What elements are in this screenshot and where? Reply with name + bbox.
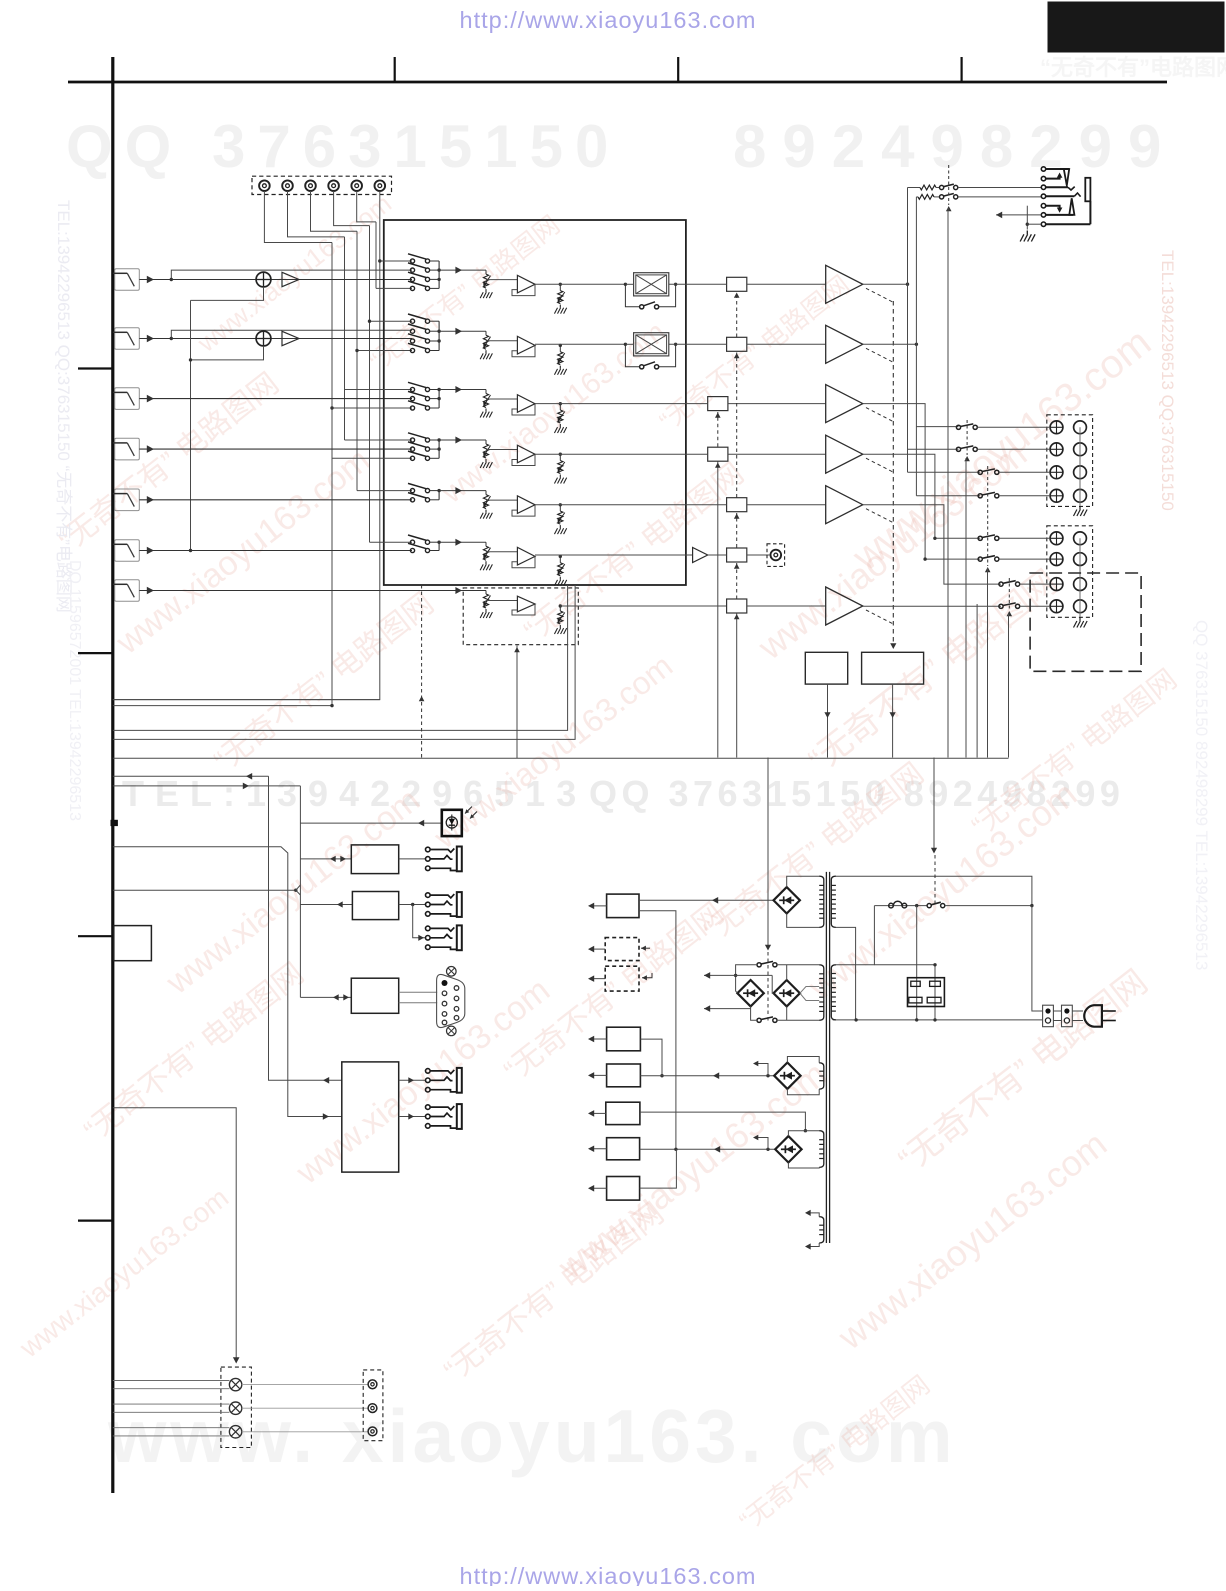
- speaker relay B2: [978, 557, 982, 561]
- wire row2 to V2: [686, 343, 727, 345]
- power switch linkage: [934, 855, 936, 903]
- wire W6 bottom arrow: [806, 1243, 819, 1247]
- ac connector pin block 2: [1062, 1005, 1073, 1026]
- sub buffer op-amp: [517, 596, 535, 612]
- wire V1 to power amp: [747, 283, 826, 285]
- junction bus mid: [437, 397, 440, 400]
- wire V6 to pre-out jack: [747, 554, 770, 556]
- remote block B: [352, 892, 398, 920]
- wire relay to terminal: [1020, 583, 1050, 585]
- ground under shunt pot: [554, 475, 566, 484]
- ground under shunt pot: [554, 424, 566, 433]
- selector switch S3: [410, 406, 414, 410]
- ground under pot: [480, 409, 492, 418]
- wire B to jack B2: [413, 905, 426, 938]
- input filter FL3: [115, 388, 140, 410]
- wire column feed: [332, 407, 412, 409]
- wire BR4 ac bottom: [787, 1089, 819, 1095]
- wire input3 main: [139, 398, 412, 400]
- junction bridge4 in: [766, 1074, 769, 1077]
- power amp PA5: [826, 486, 863, 524]
- bridge rectifier BR5: [775, 1136, 801, 1162]
- remote jack B2: [426, 926, 431, 931]
- shunt pot to ground: [559, 556, 561, 562]
- sub volume pot: [483, 594, 488, 608]
- op-amp buffer: [517, 445, 535, 463]
- speaker relay B1: [978, 536, 982, 540]
- hp contact1 wire: [1046, 168, 1070, 170]
- junction v3 row2: [355, 349, 358, 352]
- headphone jack contact 5: [1041, 204, 1045, 208]
- wire column feed: [376, 287, 412, 289]
- junction after attenuator: [674, 343, 677, 346]
- relay linkage B34: [1008, 578, 1010, 610]
- T2 switch linkage: [767, 952, 769, 1022]
- junction before attenuator: [624, 343, 627, 346]
- wire lamp L3 feed a: [113, 1427, 230, 1429]
- pre-out RCA jack: [771, 550, 782, 561]
- wire BR5 ac bottom: [788, 1163, 819, 1169]
- bus wire y699: [113, 699, 380, 701]
- wire fuse left leg: [836, 906, 875, 965]
- headphone ground: [1020, 231, 1035, 242]
- wire ctrl out: [113, 775, 269, 777]
- wire buffer out row6: [535, 554, 686, 556]
- regulator box R3 (dashed): [605, 966, 639, 991]
- wire B to jack B1: [399, 904, 426, 906]
- wire sub shunt: [559, 606, 561, 611]
- wire to rec selector: [535, 343, 560, 345]
- bus wire y730: [113, 585, 568, 730]
- input filter FL2: [115, 328, 140, 350]
- relay linkage A12: [966, 420, 968, 455]
- junction node: [559, 344, 562, 347]
- supply rail arrow: [590, 1148, 607, 1150]
- ground under sub pot: [480, 609, 492, 618]
- IR receiver box: [442, 810, 462, 836]
- arrow into line 5: [147, 496, 154, 504]
- frame tick left y1221: [78, 1219, 113, 1221]
- wire R6 to winding: [640, 1112, 806, 1131]
- junction bus out: [437, 541, 440, 544]
- wire buffer out row4: [535, 453, 686, 455]
- wire buffer out row1: [560, 283, 625, 285]
- RCA jack J3: [305, 180, 316, 191]
- wire attenuator out: [669, 283, 686, 285]
- wire column feed: [357, 490, 412, 492]
- ground under pot: [480, 459, 492, 468]
- rs232 block C: [351, 978, 398, 1013]
- trigger jack D2: [426, 1105, 431, 1110]
- selector switch S5: [410, 489, 414, 493]
- bridge5 gate arrow: [754, 1138, 768, 1150]
- bridge4 gate arrow: [754, 1064, 768, 1076]
- hp contact5 wire: [1046, 206, 1060, 211]
- headphone jack contact 7: [1041, 222, 1045, 226]
- wire lamp L1 feed b: [113, 1388, 230, 1390]
- wire input5 main: [139, 499, 412, 501]
- T2 primary switch bottom: [757, 1018, 761, 1022]
- regulator box R6: [606, 1102, 640, 1124]
- ground under pot: [480, 510, 492, 519]
- relay linkage diagonal PA2: [866, 348, 893, 362]
- wire lamp L2 feed a: [113, 1403, 230, 1405]
- junction bus mid: [437, 339, 440, 342]
- R3 sense arrow: [642, 973, 652, 978]
- lamp connector pin 3: [368, 1427, 377, 1436]
- wire pot wiper to buffer: [486, 398, 517, 400]
- mains neutral bus: [833, 1019, 1043, 1021]
- wire row5 to V5: [686, 504, 727, 506]
- terminal A4 positive: [1050, 489, 1063, 502]
- remote jack A: [426, 847, 431, 852]
- terminal A3 negative: [1074, 466, 1087, 479]
- wire switch to bus: [430, 457, 440, 459]
- wire column v1: [113, 243, 332, 706]
- remote jack B1: [426, 893, 431, 898]
- terminal B2 negative: [1074, 553, 1087, 566]
- selector switch S4: [410, 438, 414, 442]
- junction outlet tap a: [915, 904, 918, 907]
- supply rail arrow: [590, 978, 605, 980]
- protection block B: [862, 652, 924, 684]
- hp relay R: [940, 195, 944, 199]
- bus wire y739: [113, 585, 575, 739]
- selector switch S1: [410, 268, 414, 272]
- op-amp buffer: [517, 275, 535, 293]
- regulator box R1: [607, 894, 639, 918]
- op-amp buffer: [517, 336, 535, 354]
- winding W5: [819, 1131, 824, 1168]
- wire T1 sec bottom: [836, 927, 856, 1020]
- wire input7 into pot: [485, 591, 487, 595]
- selector bus row 2: [438, 321, 440, 350]
- arrow into line 7: [147, 587, 154, 595]
- arrow into line 6: [147, 547, 154, 555]
- junction amp3 corner: [923, 557, 926, 560]
- terminal A4 negative: [1074, 489, 1087, 502]
- wire lamp L2 out: [242, 1407, 368, 1409]
- wire switch to bus: [430, 407, 440, 409]
- wire switch to bus: [430, 260, 440, 262]
- relay linkage A34: [987, 466, 989, 566]
- wire A to jack: [399, 858, 426, 860]
- wire BR2 dc minus: [704, 1008, 751, 1010]
- bypass loop: [625, 344, 639, 367]
- wire column v2: [344, 237, 346, 440]
- volume chain dashed b: [736, 513, 738, 548]
- junction bus mid: [437, 447, 440, 450]
- selector switch S2: [410, 329, 414, 333]
- wire relay to terminal: [999, 471, 1050, 473]
- wire switch to plug: [945, 905, 1032, 907]
- sub linkage dashed: [421, 585, 423, 758]
- wire sub out: [560, 605, 726, 607]
- ground terminal A: [1074, 506, 1088, 516]
- input filter FL7: [115, 580, 140, 602]
- terminal B1 positive: [1050, 532, 1063, 545]
- speaker terminal block B (dashed): [1047, 526, 1093, 618]
- supply rail arrow: [590, 948, 605, 950]
- terminal B3 positive: [1050, 578, 1063, 591]
- ground under pot: [480, 561, 492, 570]
- volume drive solid V4: [717, 462, 719, 758]
- speaker relay A3: [978, 470, 982, 474]
- wire pot wiper to buffer: [486, 340, 517, 342]
- junction node: [559, 555, 562, 558]
- wire amp2 out: [863, 343, 917, 345]
- relay drive aux: [976, 604, 978, 758]
- terminal A2 positive: [1050, 443, 1063, 456]
- wire buffer out row5: [535, 504, 686, 506]
- terminal B4 negative: [1074, 600, 1087, 613]
- regulator box R8: [607, 1177, 640, 1201]
- aux chassis box: [114, 926, 152, 961]
- speaker relay A4: [978, 494, 982, 498]
- svg-text:892498299: 892498299: [733, 113, 1177, 180]
- wire column feed: [357, 350, 412, 352]
- supply rail arrow: [590, 1074, 607, 1076]
- wire hp gnd to contact7: [1027, 223, 1041, 225]
- wire switch to bus: [430, 278, 440, 280]
- wire switch to bus: [430, 269, 440, 271]
- svg-text:TEL:13942296513 QQ:376315150: TEL:13942296513 QQ:376315150: [1158, 250, 1177, 511]
- volume pot to ground: [485, 440, 487, 444]
- wire remote A: [300, 858, 351, 860]
- wire column v4: [369, 226, 371, 543]
- zone2 boundary box (dash-dot): [1030, 573, 1141, 671]
- winding W6: [819, 1217, 824, 1243]
- wire lamp L1 out: [242, 1384, 368, 1386]
- speaker relay B3: [999, 582, 1003, 586]
- border frame left vertical rule: [111, 57, 114, 1493]
- junction node: [559, 503, 562, 506]
- transformer T1 secondary: [831, 876, 836, 927]
- volume pot to ground: [485, 542, 487, 546]
- wire input2 upper branch: [171, 330, 412, 338]
- wire amp1 out: [863, 283, 908, 285]
- wire relay to terminal: [999, 558, 1050, 560]
- wire jack J3 to column bus: [311, 191, 358, 231]
- wire input1 upper branch: [171, 270, 412, 279]
- wire T2 sw top right: [777, 964, 819, 966]
- junction bridge5 in: [766, 1148, 769, 1151]
- headphone jack contact 4: [1041, 194, 1045, 198]
- wire BR2 dc plus: [704, 974, 772, 976]
- wire switch to bus: [430, 448, 440, 450]
- selector switch S2: [410, 319, 414, 323]
- wire pot wiper to buffer: [486, 279, 517, 281]
- bridge rectifier BR2: [737, 980, 763, 1006]
- junction bus out: [437, 268, 440, 271]
- transformer T2 primary: [819, 965, 824, 1021]
- wire V5 to power amp: [747, 504, 826, 506]
- antenna terminal mark: [111, 820, 117, 825]
- headphone jack contact 3: [1041, 185, 1045, 189]
- arrow into line 3: [147, 395, 154, 403]
- transformer T2 secondary: [831, 965, 836, 1020]
- wire hp line R: [916, 196, 918, 198]
- wire attenuator in: [625, 283, 633, 285]
- ctrl vertical v1: [269, 776, 342, 1080]
- sub channel block (dashed): [463, 588, 578, 645]
- relay linkage diagonal PA3: [866, 408, 893, 422]
- wire lamp L3 out: [242, 1431, 368, 1433]
- wire jack J2 to column bus: [288, 191, 345, 237]
- wire switch bus to volume pot: [439, 389, 486, 391]
- 12V trigger block D: [342, 1062, 399, 1172]
- frame tick top x962: [960, 57, 962, 82]
- wire switch bus to volume pot: [439, 541, 486, 543]
- wire T2 sw top left: [736, 965, 757, 993]
- selector bus row 3: [438, 390, 440, 409]
- junction R4R5: [660, 1074, 663, 1077]
- power amp PA7: [826, 587, 863, 625]
- wire input2 main: [139, 338, 412, 340]
- wire switch bus to volume pot: [439, 330, 486, 332]
- junction bus out: [437, 330, 440, 333]
- shunt pot to ground: [559, 454, 561, 460]
- junction v4 row2: [368, 320, 371, 323]
- feedback loop: [512, 345, 535, 356]
- IR light arrows: [465, 807, 472, 814]
- volume chain dashed c: [736, 353, 738, 498]
- lamp connector pin 1: [368, 1380, 377, 1389]
- wire switch to bus: [430, 389, 440, 391]
- hp relay L: [940, 185, 944, 189]
- wire column v3: [356, 231, 358, 490]
- row6 line buffer: [693, 548, 708, 563]
- junction mix bus input6: [189, 549, 192, 552]
- ac connector pin block 1: [1043, 1005, 1054, 1026]
- panel lamp L2: [229, 1402, 241, 1414]
- wire hp L to relay: [936, 187, 940, 189]
- wire hp line L: [908, 187, 921, 189]
- wire lamp L3 feed b: [113, 1435, 230, 1437]
- wire block B down: [892, 684, 894, 757]
- buffer after M2: [282, 331, 299, 345]
- frame tick left y653: [78, 652, 113, 654]
- wire keys line: [113, 847, 342, 1117]
- hp ground branch: [1026, 206, 1028, 230]
- ac outlet block: [908, 978, 945, 1007]
- junction dot v1 bus: [330, 704, 333, 707]
- wire BR1 ac top: [787, 876, 820, 887]
- wire amp4 route: [863, 454, 980, 538]
- wire R1 to bridge1: [639, 899, 775, 901]
- junction neutral a: [854, 1018, 857, 1021]
- hp relay linkage dashed: [948, 165, 950, 205]
- wire column feed: [345, 439, 413, 441]
- volume block V1: [727, 277, 747, 291]
- wire column v6: [113, 261, 380, 700]
- DB9 RS232 connector: [437, 974, 465, 1027]
- wire switch to bus: [430, 550, 440, 552]
- wire hp R to relay: [934, 196, 940, 198]
- hp tip spring: [1064, 169, 1069, 186]
- volume block V7: [727, 599, 747, 613]
- wire BR5 ac top: [788, 1131, 819, 1136]
- bypass loop: [625, 284, 639, 307]
- shunt pot to ground: [559, 345, 561, 351]
- winding W4: [819, 1063, 824, 1089]
- wire BR3 taps: [800, 987, 819, 994]
- selector switch S2: [410, 348, 414, 352]
- junction hp ground: [1026, 223, 1029, 226]
- relay drive A12: [965, 458, 967, 758]
- input filter FL1: [115, 269, 140, 291]
- wire switch to bus: [430, 398, 440, 400]
- junction node: [559, 453, 562, 456]
- lamp panel (dashed box): [221, 1367, 252, 1447]
- wire display line: [113, 889, 296, 891]
- buffer after M1: [282, 272, 299, 286]
- bypass switch: [640, 365, 644, 369]
- ground under shunt pot: [554, 525, 566, 534]
- wire attenuator in: [625, 343, 633, 345]
- attenuator box A2: [634, 333, 669, 356]
- wire relay feed row4: [916, 495, 980, 497]
- trigger jack D1: [426, 1069, 431, 1074]
- shunt pot to ground: [559, 505, 561, 511]
- wire V3 to power amp: [728, 403, 826, 405]
- junction mix bus M2: [189, 358, 192, 361]
- wire switch to bus: [430, 350, 440, 352]
- wire pot wiper to buffer: [486, 551, 517, 553]
- terminal A1 positive: [1050, 421, 1063, 434]
- junction R7 vertical: [674, 1148, 677, 1151]
- wire buffer out row2: [560, 343, 625, 345]
- terminal A1 negative: [1074, 421, 1087, 434]
- wire jack J1 to column bus: [264, 191, 332, 243]
- selector switch S1: [410, 259, 414, 263]
- junction sub out: [559, 604, 562, 607]
- junction amp1: [906, 283, 909, 286]
- bypass switch: [640, 305, 644, 309]
- hp sleeve wire: [1089, 201, 1091, 224]
- volume pot to ground: [485, 270, 487, 274]
- hp contact7 wire: [1046, 223, 1091, 225]
- feedback loop: [512, 505, 535, 516]
- sub shunt pot: [558, 611, 563, 624]
- junction jack B: [411, 903, 414, 906]
- wire column feed: [380, 260, 412, 262]
- junction v6 row1: [378, 259, 381, 262]
- svg-text:TEL:13942296513 QQ:376315150: TEL:13942296513 QQ:376315150 “无奇不有”电路图网: [54, 200, 73, 613]
- junction input2 branch: [170, 337, 173, 340]
- panel lamp L1: [229, 1378, 241, 1390]
- arrow into line 4: [147, 445, 154, 453]
- analog input jack panel (dashed box): [252, 176, 392, 194]
- wire row4 to V4: [686, 453, 708, 455]
- svg-text:DQ 11596572001 TEL:1394229651: DQ 11596572001 TEL:13942296513: [66, 560, 83, 821]
- wire input7 main: [139, 590, 486, 592]
- wire block A down: [827, 684, 829, 757]
- bridge rectifier BR1: [774, 887, 800, 913]
- regulator box R7: [607, 1138, 640, 1160]
- frame tick top x395: [394, 57, 396, 82]
- junction bus out: [437, 438, 440, 441]
- wire row6 to buffer: [686, 554, 693, 556]
- headphone jack contact 2: [1041, 176, 1045, 180]
- wire D out2: [399, 1116, 426, 1118]
- selector bus row 4: [438, 440, 440, 458]
- mixer M1: [256, 272, 271, 287]
- op-amp buffer: [517, 395, 535, 413]
- wire BR1 ac bottom: [787, 914, 820, 928]
- power switch drive: [933, 758, 935, 853]
- ground under shunt pot: [554, 577, 566, 586]
